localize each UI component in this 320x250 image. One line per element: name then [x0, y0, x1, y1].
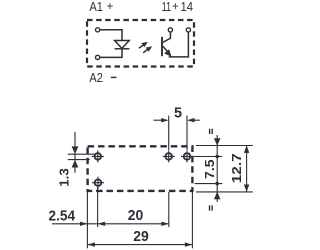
SSR dashed outline box	[87, 20, 194, 67]
dimension 5: right arrowhead	[187, 118, 195, 122]
equal-mark bottom	[210, 205, 213, 210]
extension line: body left bottom	[86, 192, 88, 249]
dimension 20: left arrowhead	[98, 222, 106, 226]
terminal A1	[96, 28, 100, 32]
chain top arrowhead (down)	[214, 138, 221, 145]
terminal 11	[168, 28, 172, 32]
phototransistor Q1 collector lead	[163, 32, 171, 42]
label A1+	[89, 0, 113, 14]
dimension 12.7: top arrowhead (up)	[244, 146, 249, 153]
dimension 2.54: dimension line	[52, 223, 98, 225]
pin hole right-1	[163, 150, 175, 162]
pin hole right-2	[181, 150, 193, 162]
wire A1 to LED anode	[100, 30, 122, 41]
svg-text:A1: A1	[89, 0, 103, 14]
terminal 14	[186, 28, 190, 32]
dimension 5: dimension line left segment	[154, 119, 163, 121]
dimension 5: left arrowhead	[161, 118, 169, 122]
dimension 12.7: bottom arrowhead (down)	[244, 185, 249, 192]
dimension 20: right arrowhead	[161, 222, 169, 226]
svg-text:+: +	[172, 1, 179, 13]
terminal A2	[96, 55, 100, 59]
svg-text:14: 14	[181, 0, 194, 14]
dimension 1.3: dimension line vertical	[74, 132, 76, 173]
relay body dashed outline (PCB view)	[88, 146, 193, 191]
chain dimension line right of body	[216, 135, 218, 202]
dimension 20: dimension line	[98, 223, 169, 225]
phototransistor Q1 emitter lead	[163, 46, 168, 52]
dimension 2.54: arrowhead at body edge	[80, 222, 88, 226]
dimension 12.7: dimension line	[246, 146, 248, 192]
extension line: body right bottom	[191, 192, 193, 249]
dimension 29: right arrowhead	[185, 242, 193, 246]
extension line: top pin row right	[194, 156, 223, 158]
svg-text:1.3: 1.3	[57, 168, 72, 187]
dimension 1.3: lower tangent line	[68, 159, 90, 161]
extension line: bottom-left pin	[97, 187, 99, 227]
minus sign of A2	[111, 76, 117, 78]
wire LED cathode to A2	[100, 49, 122, 58]
pin hole top-left	[92, 150, 104, 162]
label A2 -	[89, 70, 102, 85]
dimension 1.3: upper tangent line	[68, 153, 96, 155]
svg-text:11: 11	[162, 0, 172, 14]
dimension 5: dimension line right segment	[194, 119, 200, 121]
extension line: right pin-1 bottom	[168, 192, 170, 227]
dimension 1.3: up arrowhead	[72, 160, 79, 168]
svg-text:29: 29	[133, 228, 149, 245]
svg-text:12.7: 12.7	[229, 153, 244, 183]
dimension 29: left arrowhead	[87, 242, 95, 246]
phototransistor Q1 base bar	[161, 37, 163, 56]
svg-text:+: +	[107, 1, 114, 13]
extension line: bottom pin row right	[195, 183, 223, 185]
svg-text:20: 20	[128, 207, 144, 224]
extension line: body top right	[196, 145, 253, 147]
dimension 29: dimension line	[87, 244, 192, 246]
svg-text:5: 5	[174, 104, 182, 121]
chain dot at top pin row	[215, 155, 219, 159]
optocoupler light arrow 1	[139, 42, 148, 49]
equal-mark top	[210, 129, 213, 134]
extension line: body bottom right	[196, 191, 253, 193]
svg-text:7.5: 7.5	[202, 159, 217, 179]
chain dot at bottom pin row	[215, 182, 219, 186]
label 11+ 14	[162, 0, 194, 14]
svg-text:2.54: 2.54	[49, 207, 76, 224]
pin hole bottom-left	[92, 177, 104, 189]
dimension 5: extension lines	[169, 116, 187, 151]
dimension 1.3: down arrowhead	[72, 146, 79, 154]
chain bottom arrowhead (up)	[214, 192, 221, 199]
LED D1 triangle	[115, 41, 130, 49]
optocoupler light arrow 2	[143, 46, 152, 53]
svg-text:A2: A2	[89, 70, 102, 85]
phototransistor Q1 emitter arrowhead	[164, 49, 171, 57]
LED D1 cathode bar	[115, 48, 130, 50]
wire emitter to terminal 14	[169, 32, 189, 57]
